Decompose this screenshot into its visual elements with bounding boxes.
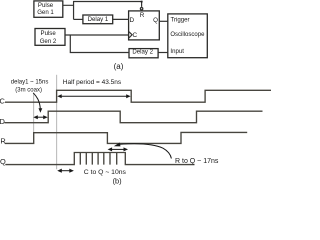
svg-text:R to Q ~ 17ns: R to Q ~ 17ns (175, 158, 219, 165)
svg-text:Pulse: Pulse (41, 30, 57, 37)
svg-text:Delay 1: Delay 1 (88, 16, 109, 23)
svg-text:Gen 2: Gen 2 (40, 38, 57, 45)
svg-text:C: C (0, 97, 6, 106)
svg-text:Oscilloscope: Oscilloscope (170, 32, 205, 38)
svg-text:C: C (133, 32, 138, 39)
svg-text:D: D (130, 17, 135, 24)
svg-text:R: R (140, 12, 145, 19)
svg-text:Q: Q (153, 17, 158, 24)
svg-text:Q: Q (0, 157, 6, 166)
svg-text:Input: Input (170, 48, 184, 55)
svg-text:Delay 2: Delay 2 (132, 48, 153, 55)
svg-text:(a): (a) (114, 62, 124, 71)
svg-text:(3m coax): (3m coax) (15, 87, 42, 93)
svg-text:(b): (b) (113, 177, 122, 186)
svg-text:D: D (0, 117, 5, 126)
svg-text:delay1 ~ 15ns: delay1 ~ 15ns (11, 80, 49, 86)
svg-text:Half period = 43.5ns: Half period = 43.5ns (63, 79, 122, 86)
svg-text:C to Q ~ 10ns: C to Q ~ 10ns (84, 169, 127, 176)
svg-text:Trigger: Trigger (171, 16, 190, 23)
svg-text:R: R (0, 137, 5, 146)
svg-text:Gen 1: Gen 1 (37, 9, 54, 16)
